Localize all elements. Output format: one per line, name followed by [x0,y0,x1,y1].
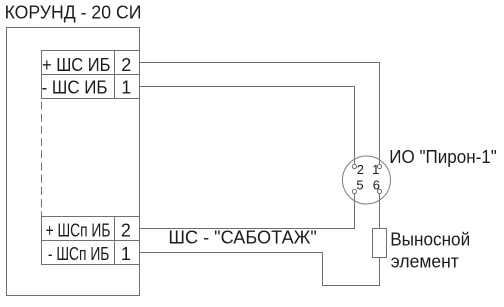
svg-text:6: 6 [373,178,380,193]
svg-text:1: 1 [372,162,379,177]
svg-text:элемент: элемент [391,252,459,272]
wire -ШС ИБ 1 to pin 2 [140,87,355,165]
svg-text:2: 2 [357,162,364,177]
svg-text:ШС - "САБОТАЖ": ШС - "САБОТАЖ" [168,228,316,248]
svg-text:5: 5 [356,178,363,193]
wire pin 6 to remote element top [379,194,381,229]
svg-text:- ШС ИБ: - ШС ИБ [42,78,108,98]
pin 1 contact [377,164,381,168]
wire +ШС ИБ 2 to pin 1 [140,63,380,165]
svg-text:- ШСп ИБ: - ШСп ИБ [48,244,110,264]
svg-text:ИО "Пирон-1": ИО "Пирон-1" [389,147,497,167]
svg-text:2: 2 [121,55,131,75]
remote element resistor [373,229,387,258]
device box КОРУНД-20СИ [7,28,140,296]
pin 6 contact [377,189,381,193]
detector connector circle ИО Пирон-1 [343,156,391,204]
svg-text:+ ШСп ИБ: + ШСп ИБ [46,220,111,240]
svg-text:2: 2 [121,220,131,240]
pin 2 contact [352,164,356,168]
dashed terminal strip continuation [41,99,43,217]
svg-text:КОРУНД - 20 СИ: КОРУНД - 20 СИ [5,2,142,22]
wire pin 5 to +ШСп ИБ 2 [140,194,355,229]
terminal block ШСп ИБ [42,217,140,265]
terminal block ШС ИБ [42,51,140,99]
pin 5 contact [352,189,356,193]
svg-text:Выносной: Выносной [390,230,470,250]
wire -ШСп ИБ 1 to remote element bottom [140,253,380,286]
svg-text:1: 1 [121,78,131,98]
svg-text:+ ШС ИБ: + ШС ИБ [42,55,110,75]
svg-text:1: 1 [121,244,131,264]
